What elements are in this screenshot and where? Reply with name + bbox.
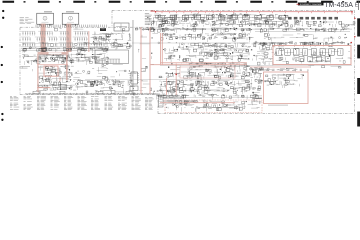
circuit cluster squelch box interior xyxy=(265,74,298,88)
circuit cluster TX top band A xyxy=(153,13,288,27)
resistor array R10-R40 xyxy=(21,31,107,41)
circuit cluster gap band xyxy=(147,17,155,25)
IC row U10-U19 xyxy=(156,15,286,19)
circuit cluster bottom left C2 xyxy=(86,87,130,93)
circuit cluster mid band A1b xyxy=(91,33,132,50)
circuit cluster mid band A2 xyxy=(135,27,250,33)
connector pin row CN1 xyxy=(36,25,106,28)
wire bundle RX path xyxy=(21,47,108,51)
circuit cluster left low margin xyxy=(23,66,33,71)
parts list text xyxy=(10,96,154,110)
circuit cluster mid band B xyxy=(249,27,352,33)
shield box W1 xyxy=(95,50,129,64)
row bus wires xyxy=(135,29,350,32)
IF transformer row T1-T8 xyxy=(276,49,343,55)
title block SCHEMATIC DIAGRAM xyxy=(298,3,324,6)
relay K1 xyxy=(114,23,129,31)
wire bundle to AF board xyxy=(163,96,190,104)
highlighted trace APC line xyxy=(88,31,90,52)
filter module FL2 xyxy=(62,12,79,27)
circuit cluster mid band B2 xyxy=(251,33,347,41)
circuit cluster mid band A1a xyxy=(122,28,129,33)
circuit cluster left low right xyxy=(92,64,108,85)
circuit cluster center gap column xyxy=(111,42,132,48)
circuit cluster center white gap xyxy=(138,42,159,59)
voltage table text xyxy=(252,69,302,71)
capacitor array C10-C40 xyxy=(21,43,105,47)
circuit cluster center low gap xyxy=(141,63,180,71)
filter module FL1 xyxy=(37,12,54,27)
circuit cluster PLL cluster xyxy=(158,72,180,78)
highlighted block PLL unit xyxy=(180,67,235,78)
highlighted supply bus 4.5V xyxy=(151,11,353,15)
highlighted trace mid xyxy=(250,66,310,68)
circuit cluster center gap column B xyxy=(109,65,136,95)
circuit cluster left top sparse xyxy=(55,28,105,31)
circuit cluster bottom center sparse xyxy=(131,80,158,94)
svg-text:TM-455A: TM-455A xyxy=(324,2,353,9)
connector CN3 with hatch xyxy=(60,85,66,90)
circuit cluster IF input row xyxy=(252,41,351,47)
circuit cluster TX top band B xyxy=(291,20,355,27)
circuit cluster VCO interior xyxy=(38,54,70,62)
svg-text:SCHEMATIC DIAGRAM: SCHEMATIC DIAGRAM xyxy=(300,3,322,6)
wire pair to PLL xyxy=(133,20,134,95)
note text mid xyxy=(145,13,152,25)
circuit cluster squelch box interior right xyxy=(298,74,304,86)
highlighted block squelch unit xyxy=(264,72,309,105)
bus wire rows xyxy=(22,43,352,98)
circuit cluster bottom left B xyxy=(66,81,86,90)
circuit cluster right strip xyxy=(250,67,264,104)
circuit cluster right low xyxy=(250,68,308,73)
circuit cluster bottom center xyxy=(159,80,250,94)
IC bank U20-U24 xyxy=(288,17,338,20)
circuit cluster mid band A3 xyxy=(161,33,252,42)
circuit cluster center right gap xyxy=(251,43,274,65)
highlighted block AF unit xyxy=(160,100,262,113)
subcircuit label text xyxy=(200,106,237,109)
circuit cluster left mid2 xyxy=(22,53,109,65)
circuit cluster bottom left C xyxy=(87,80,133,87)
circuit cluster mid band A4 xyxy=(140,33,158,38)
connector strip CN7 xyxy=(27,90,160,94)
circuit cluster left low mid xyxy=(73,70,90,90)
highlighted trace bundle (PLL lines) xyxy=(141,27,247,95)
circuit cluster IF strip interior xyxy=(275,48,352,63)
relay K2 xyxy=(130,72,140,91)
circuit cluster left low dense xyxy=(37,66,73,90)
circuit cluster center mid B xyxy=(180,43,251,63)
note text TX block xyxy=(21,66,31,68)
IC U1 xyxy=(100,28,106,31)
highlighted block IF unit xyxy=(273,46,351,65)
circuit cluster left mid1b xyxy=(22,46,108,53)
unit boundary frame xyxy=(20,10,355,114)
note text block xyxy=(20,17,35,24)
circuit cluster bottom center ext xyxy=(156,94,247,100)
highlighted trace TX line xyxy=(166,78,168,95)
highlighted block VCO unit xyxy=(37,52,68,92)
circuit cluster bottom left A2 xyxy=(40,90,60,92)
ceramic filter row CF1-CF4 xyxy=(299,57,330,62)
highlighted block TX amp xyxy=(37,66,60,88)
circuit cluster left mid xyxy=(23,42,108,47)
title text TM-455A xyxy=(324,1,359,11)
revision marker arrows xyxy=(175,4,356,75)
highlighted signal trace (RX line) xyxy=(41,24,72,52)
circuit cluster audio subcircuit xyxy=(165,100,260,112)
circuit cluster center mid A xyxy=(163,42,180,62)
connector CN8 xyxy=(159,95,164,107)
circuit cluster center low xyxy=(180,62,250,80)
circuit cluster right low ext xyxy=(308,65,341,68)
